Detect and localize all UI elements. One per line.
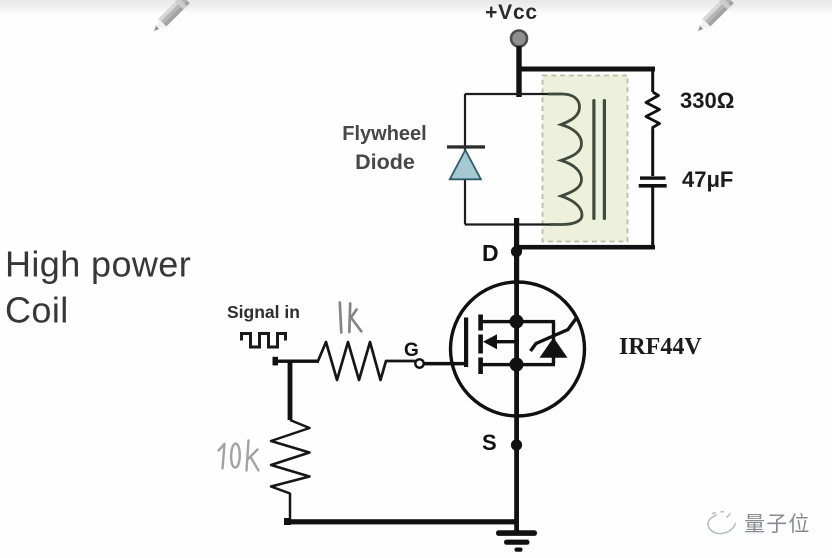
transistor Q1 MOSFET circle <box>451 282 585 416</box>
relay core line 1 <box>592 99 595 220</box>
channel bar segment 3 <box>478 358 483 375</box>
resistor R2 10k zigzag <box>271 420 310 521</box>
resistor 330 ohm <box>646 92 660 130</box>
label 10k handwritten <box>219 441 259 471</box>
wire signal to 1k resistor <box>273 360 319 363</box>
wire thick bottom rail from D node to right branch <box>517 245 655 250</box>
pencil icon left <box>150 0 190 35</box>
svg-text:Signal in: Signal in <box>227 302 300 322</box>
gate terminal circle <box>415 359 423 367</box>
node D <box>511 246 522 257</box>
wire thin top rail (Vcc to diode & coil) <box>465 93 562 95</box>
body diode triangle <box>540 338 568 358</box>
wire D stub <box>514 218 519 284</box>
svg-text:Flywheel: Flywheel <box>342 123 426 145</box>
wire top rail to resistor branch <box>517 67 655 72</box>
channel bar segment 1 <box>478 315 483 331</box>
diode D1 flywheel: cathode bar <box>447 145 485 148</box>
wire drain internal lead <box>479 320 555 323</box>
svg-text:Diode: Diode <box>355 150 415 174</box>
svg-text:330Ω: 330Ω <box>680 88 734 113</box>
diode D1 flywheel: triangle <box>450 150 481 179</box>
gate bar <box>464 318 468 368</box>
wire between resistor and capacitor <box>651 130 654 176</box>
logo QbitAI icon <box>708 512 736 534</box>
svg-text:IRF44V: IRF44V <box>619 334 702 360</box>
wire junction vertical down to 10k <box>288 361 293 420</box>
wire resistor branch top lead <box>651 69 654 92</box>
node source junction <box>510 358 524 372</box>
wire gate lead <box>424 362 465 366</box>
svg-text:+Vcc: +Vcc <box>485 1 538 24</box>
body diode vertical connector <box>552 322 555 365</box>
body diode zener cathode bar <box>531 319 577 352</box>
wire thin bottom rail (D to diode & coil) <box>465 223 554 225</box>
wire capacitor bottom lead down to bottom rail <box>651 187 654 246</box>
node S <box>511 439 522 450</box>
svg-text:D: D <box>482 240 499 266</box>
wire S vertical to ground <box>514 416 519 532</box>
wire diode branch vertical <box>464 94 466 225</box>
relay core line 2 <box>603 99 606 220</box>
inductor coil (relay winding) <box>548 94 582 225</box>
svg-text:S: S <box>482 430 497 455</box>
pencil icon right <box>694 0 734 35</box>
wire bottom rail 10k to ground <box>285 519 518 524</box>
label 1k handwritten <box>340 303 362 333</box>
square wave symbol <box>242 334 286 348</box>
svg-text:G: G <box>404 340 419 361</box>
channel bar segment 2 <box>478 335 483 354</box>
svg-text:High power: High power <box>5 244 191 285</box>
svg-text:47μF: 47μF <box>682 167 733 192</box>
relay coil box <box>543 76 628 242</box>
svg-text:Coil: Coil <box>5 290 69 331</box>
node drain junction <box>510 315 524 329</box>
resistor R1 1k zigzag <box>318 342 416 380</box>
wire Vcc vertical <box>516 46 521 97</box>
capacitor 47uF <box>640 176 666 179</box>
ground <box>496 530 537 536</box>
node +Vcc terminal <box>511 31 527 47</box>
wire source internal lead <box>479 363 555 366</box>
svg-text:量子位: 量子位 <box>744 513 811 536</box>
wire MOSFET center vertical <box>514 283 519 416</box>
body arrow (substrate, pointing left) <box>489 340 516 343</box>
